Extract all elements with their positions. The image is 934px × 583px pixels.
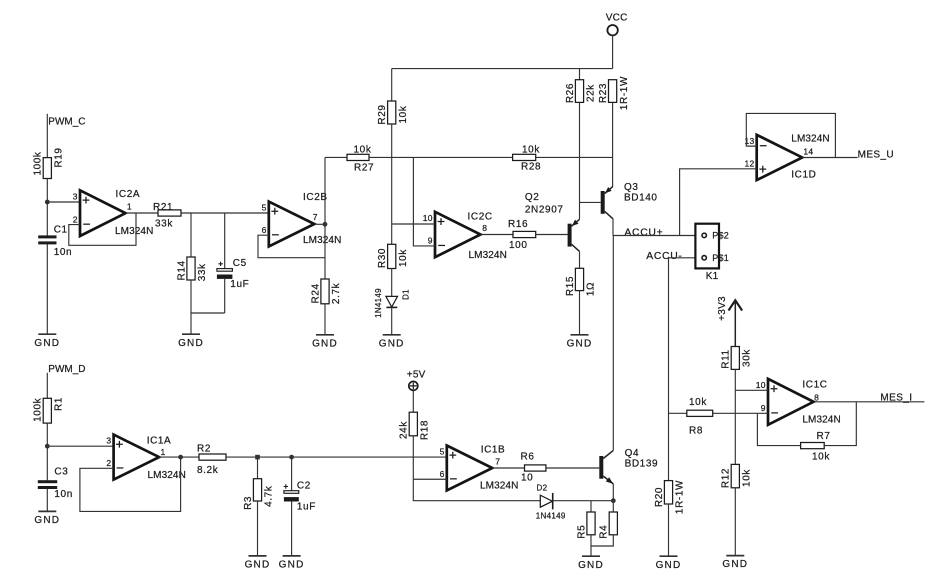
svg-text:Q4: Q4 bbox=[625, 448, 640, 459]
wire node B to IC1A pin3 bbox=[47, 445, 113, 447]
wire R8 to pin9 bbox=[713, 412, 768, 414]
svg-text:100: 100 bbox=[509, 240, 528, 251]
svg-text:10k: 10k bbox=[398, 249, 409, 267]
wire R28 to Q3 emitter column bbox=[536, 156, 613, 158]
op-amp IC1C bbox=[756, 379, 841, 426]
wire IC1A output bbox=[159, 456, 199, 458]
svg-text:1R-1W: 1R-1W bbox=[675, 480, 686, 514]
svg-text:R8: R8 bbox=[689, 425, 703, 436]
svg-text:10: 10 bbox=[756, 380, 766, 390]
svg-text:1N4149: 1N4149 bbox=[374, 288, 383, 318]
svg-text:IC2A: IC2A bbox=[116, 189, 141, 200]
svg-text:GND: GND bbox=[245, 560, 271, 571]
svg-text:R30: R30 bbox=[377, 248, 388, 268]
svg-text:LM324N: LM324N bbox=[802, 415, 840, 426]
wire R14 bottom bbox=[190, 280, 192, 334]
svg-text:PWM_C: PWM_C bbox=[48, 117, 85, 128]
svg-text:6: 6 bbox=[440, 469, 445, 479]
svg-text:R11: R11 bbox=[721, 349, 732, 368]
svg-text:8: 8 bbox=[814, 392, 819, 402]
svg-text:7: 7 bbox=[313, 212, 318, 222]
wire ACCU- down column bbox=[668, 258, 670, 481]
wire C3 to GND bbox=[46, 489, 48, 512]
svg-text:ACCU+: ACCU+ bbox=[624, 227, 663, 238]
wire rail to R29 bbox=[391, 69, 393, 101]
wire R24 to GND bbox=[324, 304, 326, 335]
wire D2 to Q4 emitter node bbox=[553, 500, 614, 502]
node B junction dot bbox=[45, 444, 50, 449]
svg-text:10k: 10k bbox=[689, 397, 707, 408]
wire R23 to Q3 emitter bbox=[612, 102, 614, 186]
wire R29 column bbox=[391, 124, 393, 244]
wire IC2A output bbox=[126, 212, 159, 214]
svg-text:22k: 22k bbox=[586, 84, 597, 102]
svg-text:33k: 33k bbox=[155, 219, 173, 230]
svg-text:C2: C2 bbox=[297, 480, 311, 491]
svg-text:2: 2 bbox=[106, 458, 111, 468]
svg-text:R3: R3 bbox=[243, 496, 254, 510]
svg-text:R7: R7 bbox=[817, 431, 831, 442]
svg-text:R2: R2 bbox=[197, 444, 211, 455]
wire R14 tap bbox=[190, 213, 192, 257]
resistor R29 (10k) bbox=[377, 101, 409, 125]
svg-text:R27: R27 bbox=[354, 163, 374, 174]
svg-text:10k: 10k bbox=[398, 105, 409, 123]
resistor R4 () bbox=[599, 512, 618, 539]
svg-text:LM324N: LM324N bbox=[115, 226, 153, 237]
capacitor C2 (polarized) bbox=[284, 480, 316, 512]
wire VCC rail bbox=[392, 68, 613, 70]
svg-text:P$1: P$1 bbox=[712, 253, 729, 263]
ground bbox=[722, 556, 748, 571]
wire R20 to GND bbox=[668, 504, 670, 556]
svg-text:GND: GND bbox=[34, 338, 60, 349]
svg-text:R16: R16 bbox=[508, 219, 528, 230]
wire C5 bottom bbox=[224, 279, 226, 313]
capacitor C3 bbox=[38, 467, 73, 501]
op-amp IC1A bbox=[106, 435, 186, 482]
svg-text:IC1B: IC1B bbox=[481, 445, 506, 456]
svg-text:1N4149: 1N4149 bbox=[536, 512, 566, 521]
wire R15 to GND bbox=[579, 291, 581, 335]
svg-text:R21: R21 bbox=[153, 202, 173, 213]
svg-text:R23: R23 bbox=[598, 83, 609, 103]
wire Q3 base bbox=[580, 201, 601, 203]
svg-text:GND: GND bbox=[578, 560, 604, 571]
ground bbox=[656, 556, 682, 571]
svg-text:LM324N: LM324N bbox=[469, 250, 507, 261]
resistor R1 (100k) bbox=[33, 397, 65, 423]
resistor R7 (10k) bbox=[801, 431, 831, 463]
svg-text:LM324N: LM324N bbox=[303, 235, 341, 246]
svg-text:R1: R1 bbox=[54, 397, 65, 411]
svg-text:R12: R12 bbox=[721, 468, 732, 488]
resistor R28 (10k) bbox=[513, 145, 542, 173]
svg-text:10n: 10n bbox=[54, 247, 72, 258]
svg-text:GND: GND bbox=[379, 338, 405, 349]
wire Q4 collector column bbox=[612, 236, 614, 451]
diode D1 (1N4149) bbox=[374, 288, 411, 318]
wire pin9 column bbox=[413, 157, 435, 246]
svg-text:10k: 10k bbox=[742, 469, 753, 487]
resistor R12 (10k) bbox=[721, 464, 753, 488]
wire +5V stem bbox=[412, 390, 414, 412]
svg-text:9: 9 bbox=[761, 403, 766, 413]
svg-text:LM324N: LM324N bbox=[791, 134, 829, 145]
svg-text:10k: 10k bbox=[354, 145, 372, 156]
resistor R20 (1R-1W) bbox=[654, 480, 686, 514]
svg-text:R4: R4 bbox=[599, 525, 610, 539]
wire Q4 emitter bbox=[612, 484, 614, 501]
capacitor C5 (polarized) bbox=[217, 258, 249, 290]
resistor R18 (24k) bbox=[399, 412, 431, 440]
svg-text:MES_U: MES_U bbox=[858, 150, 894, 161]
wire IC1D pin12 bbox=[680, 169, 757, 236]
wire R6 to Q4 base bbox=[546, 467, 599, 469]
svg-text:GND: GND bbox=[178, 338, 204, 349]
svg-text:12: 12 bbox=[744, 159, 754, 169]
wire PWM_D stem bbox=[46, 373, 48, 399]
ground bbox=[567, 335, 593, 350]
node A junction dot bbox=[45, 200, 50, 205]
svg-text:7: 7 bbox=[495, 457, 500, 467]
R3 junction square bbox=[255, 455, 260, 460]
wire ACCU- row bbox=[669, 257, 703, 259]
resistor R6 (10) bbox=[521, 452, 546, 484]
svg-text:100k: 100k bbox=[33, 397, 44, 421]
wire Q2 collector to R15 bbox=[579, 251, 581, 268]
wire IC1C output MES_I bbox=[815, 401, 925, 403]
ground bbox=[578, 556, 604, 571]
svg-text:8: 8 bbox=[482, 223, 487, 233]
svg-text:R24: R24 bbox=[310, 283, 321, 303]
wire R21 to IC2B pin5 bbox=[181, 212, 269, 214]
wire C1 to GND bbox=[46, 244, 48, 334]
svg-text:30k: 30k bbox=[742, 349, 753, 367]
wire IC2B feedback bbox=[258, 235, 325, 258]
svg-text:C1: C1 bbox=[54, 225, 68, 236]
wire C2 to GND bbox=[291, 502, 293, 556]
svg-text:GND: GND bbox=[656, 560, 682, 571]
svg-text:100k: 100k bbox=[33, 151, 44, 175]
ground bbox=[245, 556, 271, 571]
resistor R21 (33k) bbox=[153, 202, 181, 230]
svg-text:24k: 24k bbox=[399, 421, 410, 439]
ground bbox=[279, 556, 305, 571]
wire pin10 row bbox=[735, 389, 768, 391]
svg-text:IC1A: IC1A bbox=[147, 435, 172, 446]
wire R3 to GND bbox=[257, 501, 259, 556]
wire rail to R26 bbox=[579, 69, 581, 80]
wire R4 bottom link bbox=[591, 535, 613, 546]
wire R2 to IC1B pin5 bbox=[226, 456, 447, 458]
op-amp IC1B bbox=[440, 445, 519, 492]
resistor R2 (8.2k) bbox=[197, 444, 226, 477]
wire IC2B out to R27 bbox=[325, 156, 347, 158]
svg-text:ACCU-: ACCU- bbox=[646, 251, 682, 262]
wire Q2 emitter to Q3 base node bbox=[579, 202, 581, 219]
resistor R30 (10k) bbox=[377, 244, 409, 268]
svg-text:LM324N: LM324N bbox=[480, 481, 518, 492]
svg-text:GND: GND bbox=[34, 515, 60, 526]
svg-text:BD140: BD140 bbox=[624, 193, 658, 204]
IC2B output junction dot bbox=[323, 222, 328, 227]
svg-text:1: 1 bbox=[127, 202, 132, 212]
wire R5 to GND bbox=[590, 535, 592, 556]
resistor R24 (2.7k) bbox=[310, 279, 342, 304]
svg-text:R29: R29 bbox=[377, 104, 388, 124]
ground bbox=[34, 511, 60, 526]
svg-text:D1: D1 bbox=[401, 289, 410, 300]
svg-text:IC2C: IC2C bbox=[468, 211, 493, 222]
wire PWM_C stem bbox=[46, 114, 48, 158]
wire R4 tap bbox=[612, 501, 614, 512]
wire R26 column bbox=[579, 102, 581, 202]
wire C2 tap bbox=[291, 457, 293, 491]
wire VCC stem bbox=[612, 35, 614, 68]
transistor Q4 (BD139) bbox=[599, 448, 658, 484]
svg-text:+5V: +5V bbox=[407, 369, 426, 380]
svg-text:MES_I: MES_I bbox=[880, 392, 912, 403]
wire R11 column bbox=[734, 369, 736, 464]
svg-text:GND: GND bbox=[279, 560, 305, 571]
net label PWM_D bbox=[48, 364, 85, 375]
ground bbox=[312, 335, 338, 350]
svg-text:GND: GND bbox=[722, 559, 748, 570]
svg-text:3: 3 bbox=[73, 192, 78, 202]
svg-text:+3V3: +3V3 bbox=[717, 296, 728, 321]
op-amp IC2B bbox=[262, 192, 342, 246]
wire IC1C feedback bbox=[757, 413, 800, 445]
svg-text:2.7k: 2.7k bbox=[331, 282, 342, 304]
svg-text:1uF: 1uF bbox=[230, 279, 249, 290]
svg-text:5: 5 bbox=[262, 203, 267, 213]
wire R1 to node B bbox=[46, 423, 48, 480]
wire IC1D feedback bbox=[746, 113, 835, 157]
wire IC1B pin6 bbox=[413, 478, 447, 480]
svg-text:1Ω: 1Ω bbox=[586, 282, 597, 296]
resistor R19 (100k) bbox=[33, 147, 65, 178]
net label MES_I bbox=[880, 392, 912, 403]
resistor R8 (10k) bbox=[687, 397, 713, 436]
wire IC2B output column bbox=[324, 157, 326, 279]
svg-text:8.2k: 8.2k bbox=[197, 465, 219, 476]
resistor R14 (33k) bbox=[176, 257, 208, 281]
svg-text:2: 2 bbox=[73, 214, 78, 224]
resistor R15 (1R) bbox=[565, 268, 597, 296]
wire pin10 input bbox=[392, 223, 435, 225]
svg-text:PWM_D: PWM_D bbox=[48, 364, 85, 375]
net label ACCU+ bbox=[624, 227, 663, 238]
ground bbox=[178, 334, 204, 349]
svg-text:VCC: VCC bbox=[606, 13, 628, 24]
op-amp IC2C bbox=[423, 211, 507, 261]
svg-text:10n: 10n bbox=[54, 489, 73, 500]
svg-text:BD139: BD139 bbox=[625, 459, 659, 470]
resistor R16 (100) bbox=[508, 219, 536, 251]
svg-text:1uF: 1uF bbox=[297, 502, 316, 513]
svg-text:R15: R15 bbox=[565, 276, 576, 296]
wire R8 row bbox=[669, 412, 687, 414]
ground bbox=[34, 334, 60, 349]
svg-text:R20: R20 bbox=[654, 487, 665, 507]
svg-text:C5: C5 bbox=[233, 258, 247, 269]
wire R14/C5 link bbox=[191, 312, 225, 314]
resistor R5 () bbox=[576, 512, 595, 539]
net label MES_U bbox=[858, 150, 894, 161]
svg-text:2N2907: 2N2907 bbox=[525, 205, 564, 216]
op-amp IC2A bbox=[73, 189, 154, 237]
Q4 emitter junction dot bbox=[611, 498, 616, 503]
resistor R3 (4.7k) bbox=[243, 479, 275, 510]
wire IC2B output bbox=[316, 223, 325, 225]
wire R5 tap bbox=[590, 501, 592, 512]
wire node A to IC2A pin3 bbox=[47, 201, 80, 203]
svg-text:4.7k: 4.7k bbox=[264, 485, 275, 507]
wire IC1B output bbox=[492, 467, 524, 469]
wire R16 to Q2 base bbox=[536, 234, 568, 236]
svg-text:5: 5 bbox=[440, 447, 445, 457]
transistor Q2 (2N2907) bbox=[525, 192, 580, 252]
svg-text:C3: C3 bbox=[54, 467, 68, 478]
svg-text:10k: 10k bbox=[522, 145, 540, 156]
svg-text:R14: R14 bbox=[176, 260, 187, 280]
transistor Q3 (BD140) bbox=[601, 182, 658, 219]
svg-text:R28: R28 bbox=[521, 162, 541, 173]
svg-text:D2: D2 bbox=[537, 484, 548, 493]
IC1A output junction dot bbox=[178, 455, 183, 460]
svg-text:33k: 33k bbox=[197, 263, 208, 281]
resistor R23 (1R-1W) bbox=[598, 76, 630, 110]
wire R19 to node A bbox=[46, 179, 48, 237]
svg-text:Q3: Q3 bbox=[624, 182, 639, 193]
ground bbox=[379, 335, 405, 350]
power VCC symbol bbox=[606, 13, 628, 36]
svg-text:R19: R19 bbox=[54, 147, 65, 167]
svg-text:IC1C: IC1C bbox=[802, 380, 827, 391]
resistor R26 (22k) bbox=[565, 80, 597, 103]
wire Q3 collector to ACCU+ bbox=[612, 219, 614, 236]
wire ACCU+ row bbox=[613, 235, 702, 237]
wire IC1D output MES_U bbox=[802, 157, 857, 159]
wire IC1A feedback bbox=[80, 457, 181, 511]
svg-text:R6: R6 bbox=[521, 452, 535, 463]
wire R18 column to D2 row bbox=[413, 436, 540, 501]
svg-text:K1: K1 bbox=[706, 271, 719, 282]
wire D1 to GND bbox=[391, 307, 393, 334]
svg-text:IC2B: IC2B bbox=[303, 192, 328, 203]
svg-text:10: 10 bbox=[521, 473, 533, 484]
svg-text:R5: R5 bbox=[576, 525, 587, 539]
resistor R11 (30k) bbox=[721, 347, 753, 370]
wire IC2C output bbox=[481, 234, 514, 236]
wire R27 to R28 bbox=[369, 156, 513, 158]
svg-text:1: 1 bbox=[161, 447, 166, 457]
net label ACCU- bbox=[646, 251, 682, 262]
wire R7 to output bbox=[824, 402, 856, 446]
svg-text:GND: GND bbox=[312, 338, 338, 349]
connector K1 bbox=[695, 224, 729, 282]
svg-text:9: 9 bbox=[428, 236, 433, 246]
svg-text:14: 14 bbox=[803, 146, 813, 156]
wire IC2A feedback bbox=[69, 213, 136, 245]
power +3V3 symbol bbox=[717, 296, 742, 347]
svg-text:R18: R18 bbox=[420, 420, 431, 440]
svg-text:6: 6 bbox=[262, 225, 267, 235]
svg-text:3: 3 bbox=[106, 436, 111, 446]
diode D2 (1N4149) bbox=[536, 484, 566, 521]
wire R12 to GND bbox=[734, 488, 736, 556]
svg-text:10: 10 bbox=[423, 213, 433, 223]
svg-text:Q2: Q2 bbox=[525, 192, 540, 203]
net label PWM_C bbox=[48, 117, 85, 128]
svg-text:P$2: P$2 bbox=[712, 231, 729, 241]
capacitor C1 bbox=[38, 225, 72, 258]
resistor R27 (10k) bbox=[347, 145, 374, 174]
wire R30 to D1 bbox=[391, 269, 393, 297]
svg-text:IC1D: IC1D bbox=[791, 170, 816, 181]
svg-text:1R-1W: 1R-1W bbox=[619, 76, 630, 110]
svg-text:GND: GND bbox=[567, 338, 593, 349]
svg-text:10k: 10k bbox=[812, 452, 830, 463]
wire R3 tap bbox=[257, 457, 259, 479]
op-amp IC1D bbox=[744, 134, 829, 181]
power +5V symbol bbox=[407, 369, 426, 390]
C2 junction dot bbox=[289, 455, 294, 460]
wire C5 tap bbox=[224, 213, 226, 268]
svg-text:R26: R26 bbox=[565, 83, 576, 103]
